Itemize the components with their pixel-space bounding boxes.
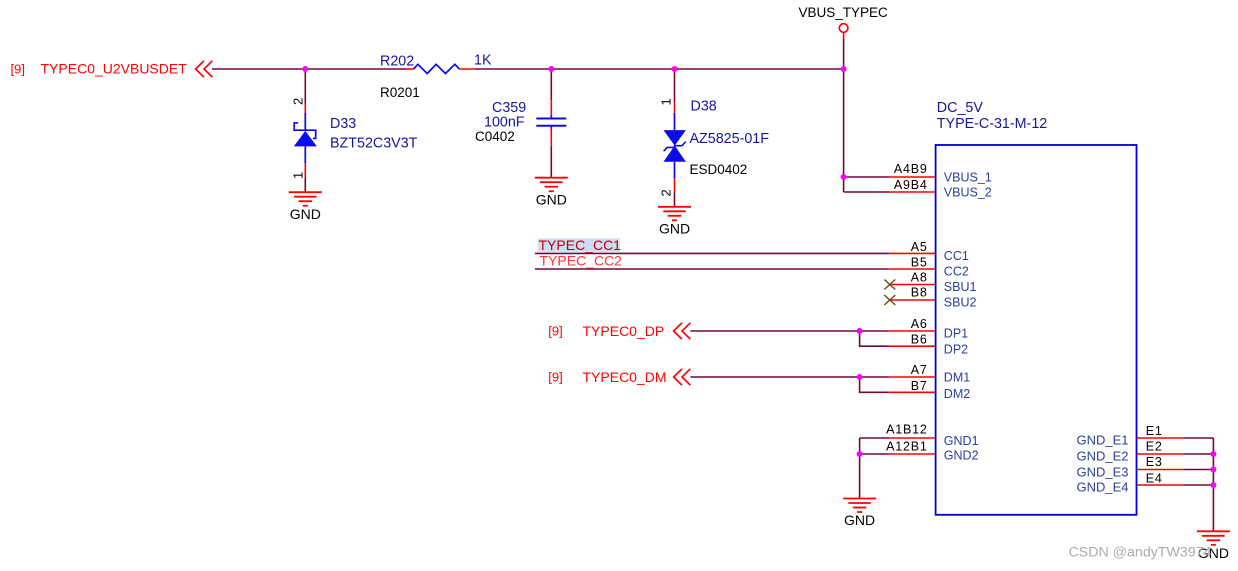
junction D33 bbox=[302, 66, 308, 72]
wire TYPEC0_DP bbox=[690, 330, 889, 332]
svg-text:C0402: C0402 bbox=[475, 129, 515, 144]
wire TYPEC_CC2 bbox=[535, 268, 889, 270]
svg-text:DM2: DM2 bbox=[944, 387, 970, 401]
connector body TYPE-C-31-M-12 bbox=[936, 145, 1137, 515]
svg-text:GND: GND bbox=[844, 512, 875, 528]
wire E pins to ground bbox=[1212, 438, 1214, 531]
junction GND2 bbox=[857, 451, 863, 457]
svg-text:VBUS_1: VBUS_1 bbox=[944, 171, 992, 185]
wire GND2 bbox=[860, 453, 889, 455]
junction VBUS_1 bbox=[841, 174, 847, 180]
svg-text:A9B4: A9B4 bbox=[894, 178, 928, 192]
svg-text:1: 1 bbox=[659, 98, 674, 105]
junction E4 bbox=[1210, 482, 1216, 488]
svg-text:ESD0402: ESD0402 bbox=[690, 162, 748, 177]
svg-text:GND: GND bbox=[659, 220, 690, 236]
svg-text:A1B12: A1B12 bbox=[886, 423, 928, 437]
svg-text:B5: B5 bbox=[911, 256, 928, 270]
junction E3 bbox=[1210, 467, 1216, 473]
pin 2 of D33 bbox=[304, 104, 306, 115]
svg-text:GND: GND bbox=[290, 206, 321, 222]
wire vertical VBUS_1 to VBUS_2 bbox=[843, 177, 845, 192]
wire E2 bbox=[1184, 453, 1214, 455]
svg-text:GND_E3: GND_E3 bbox=[1076, 464, 1128, 479]
svg-text:SBU1: SBU1 bbox=[944, 280, 977, 294]
svg-text:TYPEC0_U2VBUSDET: TYPEC0_U2VBUSDET bbox=[41, 61, 188, 77]
svg-text:BZT52C3V3T: BZT52C3V3T bbox=[330, 136, 418, 152]
junction D38 bbox=[672, 66, 678, 72]
svg-text:AZ5825-01F: AZ5825-01F bbox=[690, 131, 770, 147]
svg-text:A8: A8 bbox=[911, 270, 928, 284]
svg-text:VBUS_TYPEC: VBUS_TYPEC bbox=[798, 5, 888, 20]
svg-text:DP1: DP1 bbox=[944, 327, 968, 341]
svg-text:TYPEC_CC2: TYPEC_CC2 bbox=[540, 252, 623, 268]
wire TYPEC0_DM bbox=[690, 376, 889, 378]
wire TYPEC_CC1 bbox=[535, 252, 889, 254]
junction E2 bbox=[1210, 451, 1216, 457]
svg-text:GND2: GND2 bbox=[944, 448, 979, 462]
wire D38 to ground bbox=[674, 192, 676, 207]
ground for GND1/GND2 bbox=[843, 499, 876, 529]
svg-text:[9]: [9] bbox=[548, 370, 562, 385]
junction DM bbox=[857, 374, 863, 380]
pin of VBUS_TYPEC terminal bbox=[843, 33, 845, 39]
svg-text:[9]: [9] bbox=[11, 62, 25, 77]
pin VBUS_2 bbox=[890, 191, 936, 193]
svg-text:E4: E4 bbox=[1146, 471, 1163, 485]
svg-text:1K: 1K bbox=[474, 53, 492, 69]
svg-text:CSDN @andyTW3974: CSDN @andyTW3974 bbox=[1069, 545, 1212, 561]
svg-text:TYPEC0_DM: TYPEC0_DM bbox=[583, 369, 667, 385]
wire E1 bbox=[1184, 437, 1214, 439]
pin GND1 bbox=[889, 437, 936, 439]
svg-text:CC2: CC2 bbox=[944, 264, 969, 278]
wire to VBUS_1 bbox=[844, 176, 890, 178]
svg-text:E3: E3 bbox=[1146, 455, 1163, 469]
wire to VBUS_2 bbox=[844, 191, 890, 193]
svg-text:B8: B8 bbox=[911, 286, 928, 300]
pin GND2 bbox=[889, 453, 936, 455]
svg-text:TYPE-C-31-M-12: TYPE-C-31-M-12 bbox=[937, 116, 1047, 132]
capacitor C359 bbox=[536, 116, 566, 129]
pin SBU1 bbox=[890, 284, 936, 286]
svg-text:E1: E1 bbox=[1146, 424, 1163, 438]
svg-text:[9]: [9] bbox=[548, 324, 562, 339]
pin CC1 bbox=[889, 252, 935, 254]
pin DM1 bbox=[889, 376, 935, 378]
wire DP branch to DP2 bbox=[860, 331, 890, 346]
svg-text:TYPEC0_DP: TYPEC0_DP bbox=[583, 323, 665, 339]
svg-text:D38: D38 bbox=[691, 99, 717, 115]
svg-text:R0201: R0201 bbox=[380, 85, 420, 100]
svg-text:CC1: CC1 bbox=[944, 249, 969, 263]
svg-text:1: 1 bbox=[291, 172, 306, 179]
wire E4 bbox=[1184, 484, 1214, 486]
ground for D33 bbox=[289, 192, 322, 222]
svg-text:B7: B7 bbox=[911, 379, 928, 393]
port arrow TYPEC0_DP bbox=[674, 323, 691, 339]
power port VBUS_TYPEC bbox=[839, 24, 848, 33]
port arrow TYPEC0_U2VBUSDET bbox=[196, 61, 213, 77]
svg-text:E2: E2 bbox=[1146, 440, 1163, 454]
svg-text:DM1: DM1 bbox=[944, 371, 970, 385]
wire main net right of R202 bbox=[475, 68, 844, 70]
svg-text:SBU2: SBU2 bbox=[944, 296, 977, 310]
pin DP1 bbox=[889, 330, 935, 332]
junction VBUS_TYPEC bbox=[841, 66, 847, 72]
pin VBUS_1 bbox=[890, 176, 936, 178]
junction DP bbox=[857, 328, 863, 334]
svg-text:A6: A6 bbox=[911, 317, 928, 331]
no-connect SBU1 bbox=[884, 280, 895, 290]
svg-text:GND: GND bbox=[536, 191, 567, 207]
svg-text:A7: A7 bbox=[911, 363, 928, 377]
svg-text:DC_5V: DC_5V bbox=[937, 100, 984, 116]
wire GND1 bbox=[860, 437, 889, 439]
pin 1 of D33 bbox=[304, 162, 306, 178]
wire TYPEC0_U2VBUSDET left segment bbox=[212, 68, 406, 70]
svg-text:GND_E1: GND_E1 bbox=[1076, 433, 1128, 448]
wire to D38 bbox=[674, 69, 676, 102]
svg-text:TYPEC_CC1: TYPEC_CC1 bbox=[539, 237, 622, 253]
svg-text:A12B1: A12B1 bbox=[886, 440, 928, 454]
zener diode D33 bbox=[294, 113, 317, 163]
pin 2 of C359 bbox=[550, 127, 552, 146]
svg-text:B6: B6 bbox=[911, 333, 928, 347]
pin GND_E2 bbox=[1137, 453, 1184, 455]
highlight of net label TYPEC_CC1 bbox=[538, 239, 620, 252]
svg-text:A5: A5 bbox=[911, 240, 928, 254]
svg-text:GND_E2: GND_E2 bbox=[1076, 448, 1128, 463]
svg-text:2: 2 bbox=[659, 189, 674, 196]
wire D33 to ground bbox=[304, 178, 306, 192]
pin GND_E4 bbox=[1137, 484, 1184, 486]
pin CC2 bbox=[889, 268, 935, 270]
wire GND1/GND2 to ground bbox=[859, 438, 861, 499]
pin 1 of D38 bbox=[674, 102, 676, 115]
svg-text:A4B9: A4B9 bbox=[894, 162, 928, 176]
pin 1 of C359 bbox=[550, 100, 552, 117]
ground for D38 bbox=[658, 207, 691, 237]
no-connect SBU2 bbox=[884, 295, 895, 305]
wire E3 bbox=[1184, 469, 1214, 471]
junction C359 bbox=[548, 66, 554, 72]
ground for shell pins bbox=[1197, 531, 1230, 561]
port arrow TYPEC0_DM bbox=[674, 369, 691, 385]
wire to D33 bbox=[304, 69, 306, 104]
pin GND_E1 bbox=[1137, 437, 1184, 439]
wire VBUS_TYPEC vertical bbox=[843, 39, 845, 177]
svg-text:R202: R202 bbox=[380, 53, 414, 69]
svg-text:VBUS_2: VBUS_2 bbox=[944, 186, 992, 200]
TVS diode D38 bbox=[664, 113, 686, 178]
svg-text:GND_E4: GND_E4 bbox=[1076, 479, 1128, 494]
pin DP2 bbox=[889, 345, 935, 347]
svg-text:DP2: DP2 bbox=[944, 342, 968, 356]
pin GND_E3 bbox=[1137, 469, 1184, 471]
pin 2 of D38 bbox=[674, 177, 676, 192]
svg-text:2: 2 bbox=[291, 98, 306, 105]
pin SBU2 bbox=[890, 299, 936, 301]
wire DM branch to DM2 bbox=[860, 377, 890, 392]
wire C359 to ground bbox=[550, 146, 552, 178]
wire to C359 bbox=[550, 69, 552, 100]
pin DM2 bbox=[889, 391, 935, 393]
resistor R202 bbox=[405, 64, 476, 73]
svg-text:D33: D33 bbox=[330, 116, 356, 132]
svg-text:GND1: GND1 bbox=[944, 434, 979, 448]
ground for C359 bbox=[535, 178, 568, 208]
